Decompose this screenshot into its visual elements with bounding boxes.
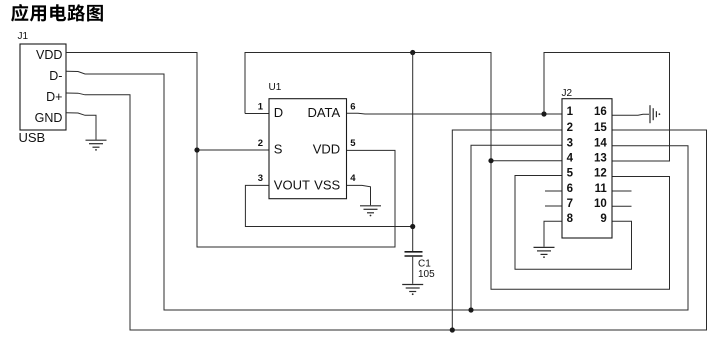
wire U1 pin3 VOUT to C1 node	[245, 185, 412, 226]
ground (C1)	[402, 285, 423, 296]
svg-text:2: 2	[567, 122, 573, 134]
svg-text:8: 8	[567, 213, 574, 225]
svg-text:15: 15	[594, 122, 607, 134]
wire D- net: J1 D- to J2 pin14	[66, 71, 688, 310]
wire D+ branch to J2 pin2	[452, 130, 562, 330]
wire U1 D net rail to J2 pin12	[245, 53, 670, 290]
svg-text:13: 13	[594, 153, 607, 165]
node junction D+ at (452.3,330)	[450, 327, 455, 332]
svg-text:1: 1	[567, 106, 574, 118]
connector J1	[18, 31, 67, 145]
wire D- branch to J2 pin3	[471, 145, 562, 310]
svg-text:6: 6	[350, 101, 355, 112]
svg-text:U1: U1	[269, 82, 282, 93]
node junction DATA at (544,114)	[541, 111, 546, 116]
title 应用电路图	[11, 4, 103, 22]
wire J2 pin16 to earth	[612, 114, 649, 115]
node junction D- at (471,310)	[468, 307, 473, 312]
svg-text:J2: J2	[562, 88, 573, 99]
svg-text:GND: GND	[35, 111, 63, 125]
svg-text:3: 3	[567, 137, 573, 149]
wire J2 pin5 to pin9 loop	[515, 176, 632, 270]
wire VDD net: J1 VDD to U1 pin5	[66, 53, 395, 248]
capacitor C1	[405, 252, 436, 284]
svg-text:7: 7	[567, 198, 573, 210]
wire J2 pin8 to ground	[544, 221, 562, 247]
svg-text:6: 6	[567, 183, 573, 195]
svg-text:9: 9	[600, 213, 606, 225]
wire J2 pin11 stub	[612, 190, 632, 192]
node junction at (491,160.7)	[488, 158, 493, 163]
wire U1 pin4 VSS to ground	[347, 185, 371, 205]
ground (J2 pin16, rotated)	[650, 105, 660, 123]
svg-text:11: 11	[595, 183, 608, 195]
node junction D rail at (412.7,52.5)	[410, 50, 415, 55]
svg-text:VDD: VDD	[36, 48, 62, 62]
svg-text:10: 10	[594, 198, 607, 210]
ground (J1 GND)	[86, 140, 107, 151]
svg-text:D+: D+	[46, 90, 62, 104]
wire DATA net: U1 pin6 to J2 pin1	[347, 112, 563, 115]
svg-text:J1: J1	[18, 31, 29, 42]
svg-text:3: 3	[258, 173, 263, 184]
svg-text:5: 5	[350, 138, 356, 149]
svg-text:14: 14	[594, 137, 607, 149]
svg-text:16: 16	[594, 106, 607, 118]
svg-text:DATA: DATA	[307, 105, 340, 120]
wire J2 pin10 stub	[612, 205, 632, 207]
svg-text:12: 12	[594, 168, 607, 180]
svg-text:D-: D-	[49, 69, 62, 83]
IC U1	[258, 82, 357, 199]
wire VDD net branch to U1 pin2 S	[197, 149, 269, 151]
svg-text:4: 4	[567, 153, 574, 165]
connector J2	[562, 88, 613, 238]
ground (J2 pin8)	[534, 247, 555, 258]
node junction VDD at (197,150)	[194, 147, 199, 152]
svg-text:VDD: VDD	[313, 142, 340, 157]
svg-text:S: S	[274, 142, 283, 157]
wire D net branch to J2 pin4	[491, 160, 562, 162]
wire J2 pin7 stub	[545, 205, 562, 207]
svg-text:D: D	[274, 105, 283, 120]
svg-text:105: 105	[418, 269, 435, 280]
svg-text:4: 4	[350, 173, 356, 184]
svg-text:1: 1	[258, 101, 264, 112]
wire U1 pin1 D stub	[245, 113, 269, 115]
svg-text:USB: USB	[19, 130, 46, 145]
svg-text:VOUT: VOUT	[274, 178, 310, 193]
ground (U1 VSS)	[360, 206, 381, 217]
wire C1 branch from D rail	[412, 53, 414, 252]
node junction VOUT at (412.7,226.5)	[410, 224, 415, 229]
wire J1 GND to ground	[66, 113, 96, 140]
svg-text:2: 2	[258, 138, 263, 149]
wire D+ net: J1 D+ to J2 pin15	[66, 93, 707, 330]
svg-text:VSS: VSS	[314, 178, 340, 193]
wire J2 pin6 stub	[545, 190, 562, 192]
svg-text:5: 5	[567, 168, 574, 180]
wire DATA branch to J2 pin13	[544, 53, 670, 162]
